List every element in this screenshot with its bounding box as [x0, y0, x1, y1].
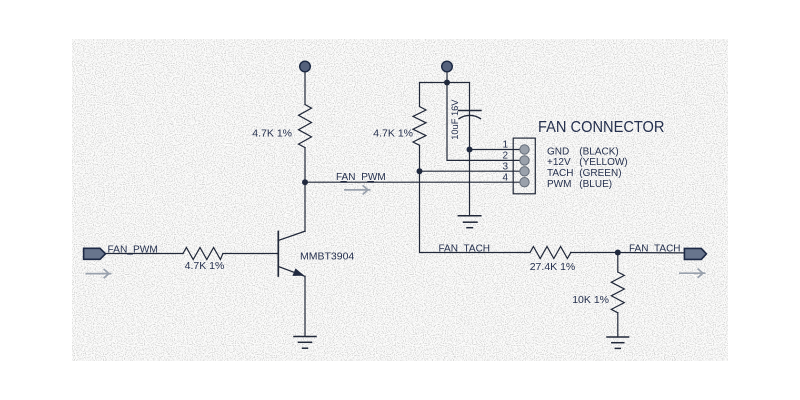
- svg-text:MMBT3904: MMBT3904: [300, 251, 354, 263]
- capacitor C1 10uF 16V lead: [469, 83, 471, 216]
- wire: R to output node: [571, 252, 618, 254]
- wire: node to output port: [618, 252, 685, 254]
- node TACH junction: [417, 168, 423, 174]
- ground (emitter): [294, 337, 316, 349]
- svg-text:2: 2: [502, 151, 508, 162]
- wire: pin 1 to cap/ground: [470, 149, 522, 151]
- svg-text:4.7K 1%: 4.7K 1%: [185, 260, 225, 272]
- node FAN TACH out junction: [615, 250, 621, 256]
- node +12V rail junction: [444, 80, 450, 86]
- svg-text:10uF 16V: 10uF 16V: [450, 99, 460, 140]
- svg-text:4.7K 1%: 4.7K 1%: [252, 127, 292, 139]
- wire: rail to R tach pull-up: [419, 83, 421, 107]
- svg-text:TACH: TACH: [547, 168, 573, 179]
- ground (10K): [607, 337, 629, 348]
- wire: 10K to ground: [617, 313, 619, 337]
- power node dot (pull-up rail, left): [300, 61, 311, 72]
- wire: TACH vertical down and FAN TACH run: [420, 171, 531, 252]
- resistor 27.4K 1%: [530, 247, 571, 259]
- svg-text:GND: GND: [547, 146, 569, 157]
- wire: node down to 10K: [617, 253, 619, 273]
- power node dot (+12V rail, right): [442, 61, 453, 72]
- connector J1 pin pads: [520, 145, 529, 187]
- wire: collector vertical: [304, 182, 306, 231]
- resistor 4.7K 1% (TACH pull-up): [413, 107, 426, 146]
- svg-text:FAN TACH: FAN TACH: [439, 243, 491, 254]
- gray flow arrow (input): [86, 269, 112, 278]
- wire: TACH node to connector pin 3: [420, 170, 522, 172]
- wire: input port to series R: [105, 253, 183, 255]
- resistor 10K 1%: [611, 272, 624, 313]
- wire: R bottom to FAN PWM node: [304, 148, 306, 183]
- wire: +12V rail horizontal: [420, 82, 470, 84]
- svg-text:PWM: PWM: [547, 179, 571, 190]
- capacitor C1 plates: [459, 111, 482, 119]
- port FAN TACH (output): [684, 248, 706, 259]
- svg-text:4: 4: [502, 172, 508, 183]
- transistor Q1 MMBT3904: [278, 231, 305, 276]
- paper area: [72, 39, 728, 361]
- gray flow arrow (FAN PWM net): [344, 185, 371, 194]
- svg-text:FAN CONNECTOR: FAN CONNECTOR: [538, 119, 665, 136]
- svg-text:+12V: +12V: [547, 157, 571, 168]
- connector J1 body: [513, 138, 535, 194]
- svg-text:(BLACK): (BLACK): [579, 146, 618, 157]
- svg-text:(GREEN): (GREEN): [579, 168, 621, 179]
- wire: power dot down: [446, 72, 448, 83]
- svg-text:(YELLOW): (YELLOW): [579, 157, 627, 168]
- wire: emitter to ground: [304, 276, 306, 336]
- svg-text:27.4K 1%: 27.4K 1%: [530, 261, 576, 273]
- resistor 4.7K 1% (PWM pull-up): [299, 105, 312, 148]
- ground (capacitor): [458, 216, 481, 228]
- wire: base wire from series R to base: [223, 253, 278, 255]
- svg-text:FAN TACH: FAN TACH: [629, 244, 681, 255]
- wire: FAN PWM net to connector pin 4: [305, 181, 521, 183]
- net label underscore marks: [341, 181, 375, 183]
- svg-text:(BLUE): (BLUE): [579, 179, 612, 190]
- svg-text:FAN_PWM: FAN_PWM: [108, 245, 158, 256]
- svg-text:10K 1%: 10K 1%: [572, 294, 609, 306]
- svg-text:3: 3: [502, 162, 508, 173]
- node GND/cap junction: [467, 147, 473, 153]
- wire: +12V down to pin 2: [447, 83, 521, 161]
- wire: power dot to R pull-up top: [304, 72, 306, 105]
- node FAN PWM junction: [302, 179, 308, 185]
- wire: R bottom to TACH node: [419, 145, 421, 171]
- svg-text:4.7K 1%: 4.7K 1%: [373, 128, 413, 140]
- resistor 4.7K 1% (base series): [183, 248, 223, 260]
- svg-text:1: 1: [502, 140, 508, 151]
- port FAN_PWM (input): [84, 248, 106, 259]
- gray flow arrow (output): [679, 269, 706, 278]
